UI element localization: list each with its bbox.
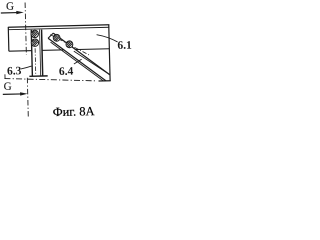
svg-text:G: G [6,1,14,13]
svg-text:6.1: 6.1 [117,40,132,52]
svg-text:Фиг. 8А: Фиг. 8А [53,104,95,119]
svg-text:G: G [4,81,12,93]
svg-text:6.3: 6.3 [7,65,22,77]
svg-text:6.4: 6.4 [59,66,74,78]
